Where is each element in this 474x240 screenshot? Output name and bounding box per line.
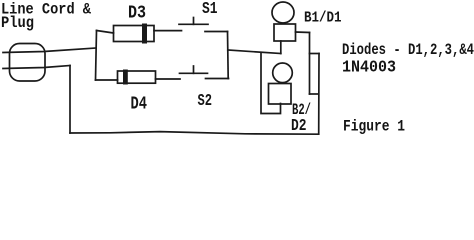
wire B1 right lead	[296, 31, 310, 34]
wire S2 contact lead	[206, 78, 229, 80]
wire main to lamps	[228, 50, 281, 54]
wire hot prong line	[3, 48, 96, 53]
svg-text:D3: D3	[128, 4, 146, 24]
wire left branch vertical	[96, 31, 97, 81]
svg-text:D4: D4	[131, 95, 148, 115]
lamp B2 bulb	[273, 63, 293, 83]
wire D4 right lead	[156, 78, 181, 80]
wire D4 left lead	[96, 79, 118, 81]
plug body	[10, 44, 46, 82]
wire B2 branch	[261, 53, 281, 114]
diode D4	[118, 71, 156, 83]
svg-text:Figure 1: Figure 1	[343, 118, 405, 136]
svg-text:B1/D1: B1/D1	[304, 10, 342, 27]
wire D3 left lead	[97, 31, 114, 34]
wire bottom rail	[70, 132, 319, 135]
switch S1 blade	[179, 23, 208, 25]
svg-text:Plug: Plug	[1, 14, 34, 32]
wire right loop top stub	[310, 53, 320, 55]
lamp B1 base	[274, 24, 296, 41]
wire B1 bottom lead	[280, 41, 282, 54]
wire switch join vertical	[227, 32, 230, 79]
wire neutral prong line	[3, 66, 70, 69]
svg-text:S2: S2	[198, 92, 213, 111]
svg-text:D2: D2	[291, 117, 307, 136]
wire right loop bottom stub	[310, 93, 319, 95]
diode D3	[114, 26, 155, 42]
switch S2 blade	[180, 72, 208, 74]
wire left down vertical	[69, 66, 71, 134]
svg-text:1N4003: 1N4003	[342, 59, 396, 78]
switch S1 contact tick	[193, 18, 195, 25]
lamp B2 base	[269, 84, 292, 105]
wire right loop left vertical	[309, 33, 311, 95]
wire right vertical to rail	[318, 54, 320, 135]
switch S2 contact tick	[193, 66, 195, 73]
lamp B1 bulb	[272, 2, 294, 23]
wire S1 contact lead	[205, 31, 228, 33]
svg-text:S1: S1	[202, 0, 218, 18]
wire D3 right lead	[154, 30, 182, 32]
svg-text:Diodes - D1,2,3,&4: Diodes - D1,2,3,&4	[342, 41, 474, 59]
